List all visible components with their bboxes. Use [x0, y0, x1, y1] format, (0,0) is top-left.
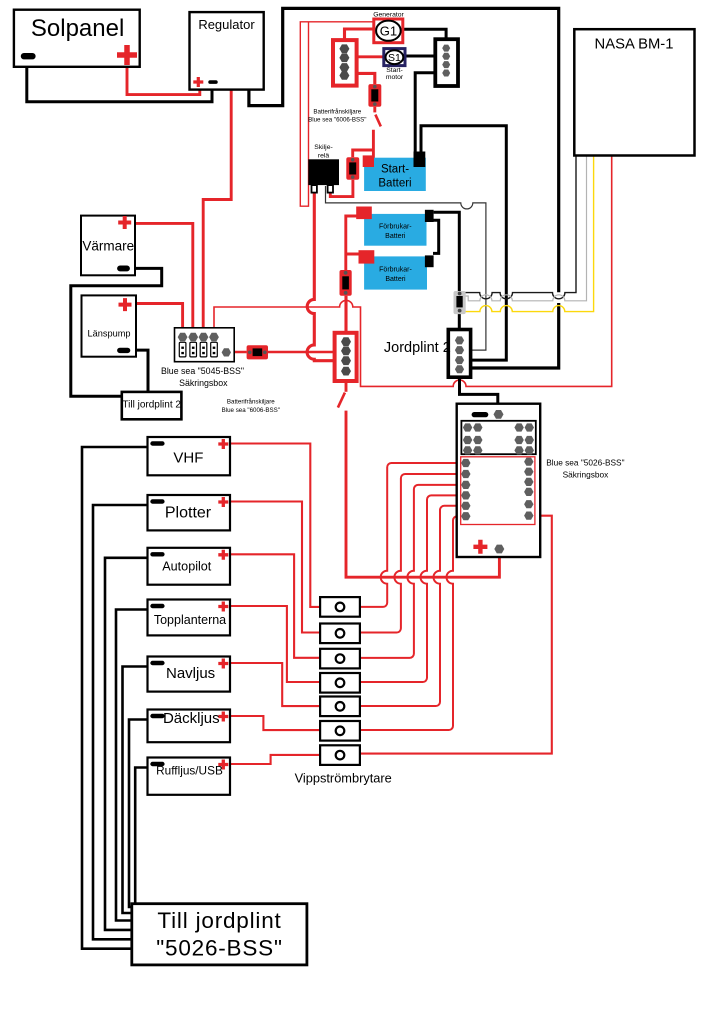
svg-text:VHF: VHF: [173, 450, 203, 467]
svg-text:Blue sea "6006-BSS": Blue sea "6006-BSS": [308, 117, 366, 124]
svg-text:Batteri: Batteri: [378, 178, 411, 190]
svg-text:relä: relä: [318, 152, 330, 159]
svg-text:Start-: Start-: [386, 67, 403, 74]
svg-text:Generator: Generator: [373, 11, 404, 18]
svg-text:"5026-BSS": "5026-BSS": [156, 936, 283, 961]
svg-text:Förbrukar-: Förbrukar-: [379, 266, 412, 273]
svg-text:Autopilot: Autopilot: [162, 560, 212, 574]
svg-text:Till jordplint: Till jordplint: [157, 908, 281, 933]
svg-text:Vippströmbrytare: Vippströmbrytare: [295, 771, 392, 786]
svg-text:Blue sea "5026-BSS": Blue sea "5026-BSS": [546, 457, 624, 467]
svg-text:Skilje-: Skilje-: [314, 144, 333, 151]
svg-text:Ruffljus/USB: Ruffljus/USB: [156, 764, 223, 778]
svg-text:S1: S1: [388, 52, 401, 64]
svg-text:Säkringsbox: Säkringsbox: [179, 378, 228, 388]
svg-text:Blue sea "5045-BSS": Blue sea "5045-BSS": [161, 366, 244, 376]
svg-text:Batterifrånskiljare: Batterifrånskiljare: [227, 398, 275, 405]
svg-text:Blue sea "6006-BSS": Blue sea "6006-BSS": [222, 407, 280, 414]
svg-text:G1: G1: [380, 23, 397, 38]
svg-text:Däckljus: Däckljus: [163, 710, 220, 727]
svg-text:Till jordplint 2: Till jordplint 2: [122, 400, 181, 411]
svg-text:motor: motor: [386, 74, 404, 81]
svg-text:Länspump: Länspump: [88, 329, 131, 339]
svg-text:Batterifrånskiljare: Batterifrånskiljare: [313, 108, 361, 115]
svg-text:Batteri: Batteri: [385, 276, 406, 283]
svg-text:NASA BM-1: NASA BM-1: [595, 37, 674, 53]
svg-text:Start-: Start-: [381, 164, 409, 176]
svg-text:Regulator: Regulator: [198, 17, 255, 32]
svg-text:Säkringsbox: Säkringsbox: [563, 469, 610, 479]
svg-text:Solpanel: Solpanel: [31, 15, 124, 42]
svg-text:Topplanterna: Topplanterna: [154, 613, 226, 627]
svg-text:Förbrukar-: Förbrukar-: [379, 224, 412, 231]
svg-text:Plotter: Plotter: [165, 505, 212, 522]
svg-text:Värmare: Värmare: [82, 239, 134, 254]
svg-text:Batteri: Batteri: [385, 233, 406, 240]
svg-text:Jordplint 2: Jordplint 2: [384, 340, 451, 356]
svg-text:Navljus: Navljus: [166, 665, 215, 682]
